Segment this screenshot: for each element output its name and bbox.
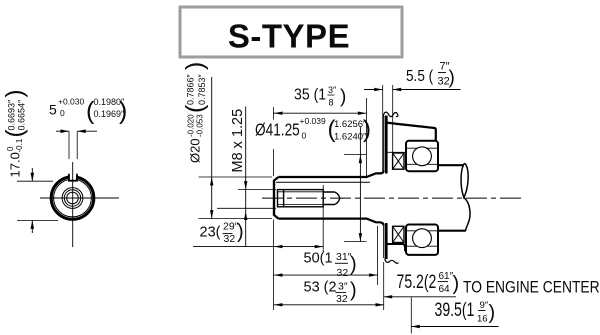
svg-text:17.0: 17.0	[8, 152, 23, 177]
crankshaft big section bottom edge	[438, 230, 466, 232]
dimension 50 text	[304, 251, 357, 280]
svg-text:S-TYPE: S-TYPE	[228, 18, 350, 55]
dimension 5.5 text	[406, 61, 455, 89]
dimension 35 text	[294, 85, 346, 108]
dimension 5 keyway width dimension line	[56, 129, 97, 133]
dimension 23 dimension line	[193, 245, 323, 248]
crankshaft big section top edge	[438, 164, 464, 166]
svg-text:32: 32	[224, 233, 236, 245]
dimension 75.2 text	[397, 271, 600, 297]
M8 leader line with outside arrows	[244, 107, 247, 247]
svg-text:39.5(1: 39.5(1	[435, 299, 475, 321]
svg-text:3″: 3″	[328, 85, 337, 95]
svg-text:M8 x 1.25: M8 x 1.25	[230, 109, 246, 173]
dimension 23 text	[200, 221, 244, 246]
dimension 5.5 dimension line with outside arrows	[364, 88, 461, 91]
svg-text:5.5 (: 5.5 (	[406, 68, 433, 85]
dimension 35 dimension line	[273, 112, 366, 115]
dimension Ø20 rotated text	[181, 62, 209, 163]
dimension 75.2 dimension line	[384, 295, 456, 298]
svg-text:): )	[2, 90, 29, 98]
dimension 39.5 extension line	[410, 298, 412, 334]
svg-text:75.2(2: 75.2(2	[397, 271, 437, 293]
svg-text:+0.030: +0.030	[58, 97, 85, 107]
svg-text:23(: 23(	[200, 225, 221, 241]
svg-text:): )	[237, 221, 244, 243]
svg-text:): )	[489, 302, 496, 324]
dimension Ø20 dimension line with arrows	[210, 77, 213, 219]
ball bearing upper box	[406, 141, 438, 171]
left shared extension line at shaft end	[272, 107, 274, 310]
svg-text:9″: 9″	[480, 300, 489, 311]
end view chamfer circle	[54, 179, 92, 217]
dimension 39.5 text	[435, 299, 496, 325]
crankcase bottom break squiggle	[385, 259, 399, 264]
svg-text:32: 32	[337, 267, 349, 279]
svg-text:): )	[363, 116, 371, 143]
crankcase top break squiggle	[383, 112, 398, 117]
svg-text:): )	[453, 273, 460, 295]
dimension 17.0 dimension line with outside arrows	[31, 168, 35, 233]
crankcase upper ledge thin line	[386, 151, 406, 153]
dimension 53 dimension line	[274, 303, 384, 306]
dimension Ø41.25 leader and arrows	[359, 127, 362, 242]
dimension 50 dimension line	[274, 273, 378, 276]
crankcase lower ledge	[386, 244, 423, 250]
svg-text:-0.020: -0.020	[187, 114, 196, 137]
dimension 23 right extension line	[322, 185, 324, 252]
svg-text:0.7853″: 0.7853″	[197, 73, 207, 105]
shaft left end face	[273, 180, 275, 216]
end view vertical centerline	[72, 162, 74, 247]
end view horizontal centerline	[40, 197, 119, 199]
dimension Ø41.25 extension lines	[344, 154, 367, 156]
svg-text:50(1: 50(1	[304, 251, 333, 267]
svg-text:Ø20: Ø20	[188, 138, 203, 163]
svg-text:0.7866″: 0.7866″	[186, 73, 196, 105]
svg-text:Ø41.25: Ø41.25	[255, 121, 300, 140]
oil seal lower box	[393, 226, 404, 242]
dimension 5.5 extension lines	[382, 85, 384, 171]
crankshaft S-break	[461, 164, 468, 198]
svg-text:32: 32	[336, 293, 348, 305]
svg-text:53 (2: 53 (2	[304, 280, 337, 296]
tapped hole M8 outline	[278, 190, 340, 207]
M8 x 1.25 rotated text	[230, 109, 246, 173]
svg-text:): )	[350, 280, 357, 302]
keyway flat line	[276, 181, 370, 183]
oil seal upper box	[393, 153, 404, 169]
dimension 5 keyway width extension lines	[68, 131, 70, 159]
end view outer circle	[51, 177, 94, 220]
M8 hole extension lines	[238, 189, 276, 191]
dimension 17.0 rotated text	[2, 90, 29, 178]
svg-text:3″: 3″	[338, 281, 348, 293]
end view keyway slot	[69, 172, 77, 181]
svg-text:64: 64	[439, 284, 451, 295]
dimension 39.5 dimension line	[411, 325, 498, 328]
dimension 35 right extension line	[365, 98, 367, 176]
svg-text:16: 16	[477, 314, 488, 325]
svg-text:8: 8	[329, 98, 334, 108]
svg-text:0.6693″: 0.6693″	[7, 99, 17, 131]
svg-text:): )	[449, 68, 455, 89]
ball bearing lower box	[406, 225, 438, 255]
dimension Ø41.25 text	[255, 116, 371, 143]
dimension 50 right extension line	[377, 226, 379, 285]
svg-text:+0.039: +0.039	[300, 116, 327, 126]
svg-text:-0.053: -0.053	[196, 114, 205, 137]
tapped hole thread minor lines	[278, 192, 324, 205]
svg-text:): )	[340, 87, 346, 108]
dimension 17.0 extension lines	[17, 180, 53, 182]
crankcase upper ledge slope	[386, 123, 436, 141]
svg-text:0: 0	[6, 146, 15, 151]
dimension Ø20 extension lines	[199, 176, 273, 178]
svg-text:): )	[181, 62, 209, 70]
shaft body outline	[274, 171, 384, 226]
svg-text:5: 5	[49, 102, 57, 118]
end view thread major circle	[64, 190, 80, 206]
dimension 75.2 extension line (shared with 53)	[383, 262, 385, 310]
end view thread minor circle	[67, 192, 79, 204]
svg-text:-0.1: -0.1	[15, 138, 24, 152]
end view counterbore circle	[62, 188, 83, 209]
crankcase face thick line	[385, 116, 388, 260]
svg-text:): )	[119, 97, 127, 125]
crankcase spigot edge thin line	[383, 116, 385, 258]
svg-text:0: 0	[60, 108, 65, 118]
svg-text:35 (1: 35 (1	[294, 86, 326, 104]
svg-text:): )	[350, 254, 357, 276]
svg-text:TO ENGINE CENTER: TO ENGINE CENTER	[463, 278, 600, 296]
svg-text:61″: 61″	[439, 271, 454, 282]
svg-text:0: 0	[302, 131, 307, 141]
title box S-TYPE	[180, 7, 402, 57]
svg-text:0.6654″: 0.6654″	[17, 99, 27, 131]
main view centerline	[262, 197, 521, 199]
dimension 5 text	[49, 97, 127, 126]
dimension 53 text	[304, 280, 357, 305]
